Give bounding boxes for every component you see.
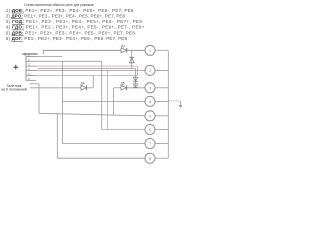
svg-text:4: 4 (149, 100, 151, 104)
svg-text:7: 7 (149, 142, 151, 146)
diode Д1 (121, 44, 127, 53)
relay coil РЕ5 (145, 111, 155, 121)
svg-text:8: 8 (149, 157, 151, 161)
relay coil РЕ4 (145, 96, 155, 106)
svg-text:Д1: Д1 (121, 44, 125, 48)
wire: switch bottom output (30, 83, 40, 85)
rotary switch SA1 wiper arm with arrowhead (21, 50, 43, 55)
wire: tap 2 (36, 60, 102, 62)
svg-text:Д5: Д5 (121, 82, 125, 86)
wire: relay 3 row (30, 87, 82, 89)
relay coil РЕ3 (145, 83, 155, 93)
svg-text:6) ДОГ: РЕ1-, РЕ2+, РЕ3-, РЕ4+: 6) ДОГ: РЕ1-, РЕ2+, РЕ3-, РЕ4+, РЕ5-, РЕ… (6, 36, 128, 41)
svg-text:1: 1 (149, 49, 151, 53)
wire: tap 5 (red) (36, 75, 138, 77)
wires: relay right stubs to common bus (155, 50, 168, 158)
relay coil РЕ7 (145, 138, 155, 148)
wire: diode Д1 to relay 1 (127, 49, 145, 51)
svg-text:5: 5 (149, 114, 151, 118)
svg-text:2) ДРО: РЕ1+, РЕ2-, РЕ3+, РЕ4-: 2) ДРО: РЕ1+, РЕ2-, РЕ3+, РЕ4-, РЕ5, РЕ6… (6, 13, 126, 18)
wire: relay 4 row (62, 100, 145, 102)
svg-text:4) ГДО: РЕ1+, РЕ2-, РЕ3+, РЕ4+: 4) ГДО: РЕ1+, РЕ2-, РЕ3+, РЕ4+, РЕ5-, РЕ… (6, 25, 145, 30)
relay coil РЕ2 (145, 65, 155, 75)
wire: vertical from tap5 row to relay3 row (92, 76, 94, 88)
wire: relay 8 row (57, 157, 145, 159)
svg-text:6: 6 (149, 128, 151, 132)
wire: second wafer output row (38, 68, 136, 70)
svg-text:5) ДРВ: РЕ1+, РЕ2+, РЕ3-, РЕ4+: 5) ДРВ: РЕ1+, РЕ2+, РЕ3-, РЕ4+, РЕ5-, РЕ… (6, 31, 137, 36)
contact position numbers 1-6 (28, 53, 30, 81)
wire: Д5 to relay 3 (127, 87, 145, 89)
wire: relay 6 row (red) (102, 129, 145, 131)
wire: Д4 to Д5 (87, 87, 94, 89)
wire: relay3 row right segment (114, 87, 121, 89)
wire: vertical tap2 branch to relay 6 row (101, 61, 103, 129)
wire: relay 7 row (62, 143, 145, 145)
relay coil РЕ6 (145, 124, 155, 134)
svg-text:2: 2 (149, 69, 151, 73)
svg-text:Схемы включения обмоток реле д: Схемы включения обмоток реле для режимов (24, 3, 94, 7)
svg-text:на 6 положений: на 6 положений (1, 88, 27, 92)
contact stubs 1-6 (26, 57, 36, 81)
wire: vertical tap5 to relay3 row through diodes (135, 69, 137, 88)
svg-text:3) ГОД: РЕ1+, РЕ2-, РЕ3+, РЕ4-: 3) ГОД: РЕ1+, РЕ2-, РЕ3+, РЕ4-, РЕ5+, РЕ… (6, 19, 143, 24)
wire: red vertical from tap 4 (107, 70, 109, 129)
svg-text:Д4: Д4 (81, 82, 85, 86)
wire: branch from relay1 row down (131, 50, 133, 68)
rotary switch contact column (25, 55, 27, 80)
wire: vertical drop to relay 5/8 feed (38, 84, 40, 114)
relay coil РЕ8 (145, 153, 155, 163)
wire: vertical to relay 8 row (56, 114, 58, 158)
wire: red vertical tap3 to tap5 (137, 66, 139, 75)
wire: bus to ground (168, 100, 180, 102)
diode Д2 (vertical, pointing up) (129, 57, 134, 63)
svg-text:3: 3 (149, 86, 151, 90)
wire: relay 5 row (39, 113, 145, 116)
diode Д4 (81, 82, 87, 91)
wire: tap 1 (36, 56, 62, 58)
wire: common to relay 1 row (43, 49, 121, 51)
diode Д3 (vertical, pointing down) (133, 77, 138, 81)
wire: tap 4 to relay 2 (36, 69, 145, 71)
wire: right common bus (167, 50, 169, 158)
plus supply terminal (13, 65, 18, 70)
wire: vertical tap2 to relay 7 row (61, 61, 63, 143)
wire: vertical from tap 5 to relay 6 row (113, 88, 115, 116)
diode Д6 (vertical, pointing down) (133, 84, 138, 88)
relay coil РЕ1 (145, 45, 155, 55)
diode Д5 (121, 82, 127, 91)
wire: tap 3 (red) (36, 65, 138, 67)
ground (arrow down) (179, 105, 183, 108)
svg-text:1) ДОЕ: РЕ1+, РЕ2+, РЕ3-, РЕ4-: 1) ДОЕ: РЕ1+, РЕ2+, РЕ3-, РЕ4-, РЕ5+, РЕ… (6, 8, 134, 13)
